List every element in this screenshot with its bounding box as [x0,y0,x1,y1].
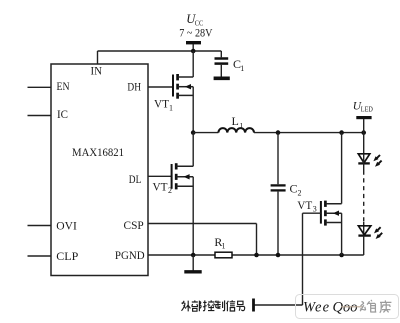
capacitor C2 [271,133,302,255]
inductor L1 [193,114,254,133]
diode LED2 [358,222,382,255]
svg-text:L: L [232,114,239,128]
svg-text:DL: DL [129,172,142,186]
ground symbol at PGND [184,255,201,272]
svg-text:2: 2 [168,186,172,195]
wire VT3 gate to control input [254,213,321,305]
svg-text:1: 1 [240,64,244,73]
wire output rail [254,132,364,134]
svg-text:1: 1 [222,242,226,251]
pin EN [28,79,70,93]
ground under C1 [214,77,230,81]
wire ULED rail down to LED1 [363,133,365,154]
wire DH to VT1 gate [148,86,173,88]
svg-text:oo: oo [343,300,358,316]
svg-text:VT: VT [154,97,170,111]
svg-text:PGND: PGND [115,248,145,262]
pin CLP [28,249,79,263]
wire VT2 drain up to SW node [192,133,194,167]
svg-text:Q: Q [333,300,344,316]
svg-text:VT: VT [297,198,313,212]
node junction at Ucc rail [191,49,196,54]
wire Ucc rail [98,50,222,52]
transistor Q VT1 (high-side MOSFET) [154,74,193,113]
capacitor C1 [215,51,245,77]
svg-text:LED: LED [361,106,373,114]
svg-text:CSP: CSP [124,218,145,232]
node junction VT3 source [339,253,344,258]
pin PGND label [115,248,145,262]
svg-text:CLP: CLP [56,249,78,263]
svg-text:MAX16821: MAX16821 [72,145,124,159]
svg-text:7 ~ 28V: 7 ~ 28V [179,25,212,39]
pin OVI [28,218,77,232]
svg-text:1: 1 [240,122,244,131]
pin DH label [127,80,141,94]
node junction CSP tap [254,253,259,258]
svg-text:C: C [290,182,298,196]
node junction ULED [361,130,366,135]
power ULED terminal [353,100,373,132]
pin CSP label [124,218,145,232]
pin DL label [129,172,142,186]
wire DL to VT2 gate [148,175,172,177]
wire VT3 source down to PGND rail [341,213,343,255]
node junction C2 top [276,130,281,135]
pin IC [28,107,69,121]
node junction VT3 drain [339,130,344,135]
wire VT3 drain up to output rail [341,133,343,204]
svg-text:2: 2 [298,189,302,198]
node SW junction [191,130,196,135]
wire VT2 source down to PGND rail [192,177,194,255]
svg-text:IN: IN [91,63,103,77]
IC U1 MAX16821 body [51,64,148,276]
wire VT1 source down to SW node [192,87,194,133]
diode LED1 [358,154,381,171]
wire PGND bottom rail [148,254,364,256]
node junction C2 bottom [276,253,281,258]
resistor R1 [214,235,232,258]
node junction PGND/ground [191,253,196,258]
wire CSP feedback [148,224,257,256]
svg-text:3: 3 [313,205,317,214]
label external control signal (Chinese) [182,300,245,311]
svg-text:1: 1 [169,104,173,113]
svg-text:OVI: OVI [56,218,77,232]
wire VT1 drain up to Ucc [192,51,194,77]
svg-text:Wee: Wee [303,300,330,316]
label Ucc 7~28V [179,12,212,39]
power Ucc terminal bar [186,43,201,51]
svg-text:DH: DH [127,80,141,94]
transistor Q VT3 (dimming MOSFET) [297,198,341,226]
svg-text:IC: IC [57,107,68,121]
pin IN wire [91,51,103,77]
svg-text:EN: EN [57,79,70,93]
transistor Q VT2 (low-side MOSFET) [153,163,194,195]
wire dashed LED string continuation [363,171,365,223]
control input terminal bar [252,299,255,312]
svg-text:VT: VT [153,180,169,194]
watermark WeeQoo weiku [296,295,399,319]
